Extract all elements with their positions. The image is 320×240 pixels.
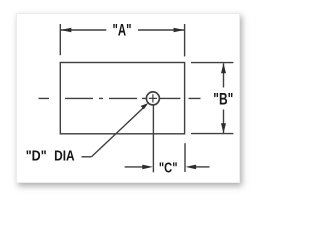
dim A right extension line bbox=[184, 24, 186, 56]
dim B dimension line bottom segment bbox=[223, 110, 225, 134]
leader line diagonal to hole bbox=[92, 105, 147, 157]
dim B top extension line bbox=[191, 62, 233, 64]
part outline rectangle bbox=[60, 63, 184, 134]
dim C left arrow tail bbox=[125, 166, 144, 168]
dim C left arrowhead bbox=[142, 165, 153, 170]
drawing card background bbox=[16, 13, 240, 183]
dim B dimension line top segment bbox=[223, 63, 225, 87]
dim B up arrowhead bbox=[221, 63, 226, 73]
dim C right arrow tail bbox=[194, 166, 210, 168]
leader line tail from D DIA label bbox=[82, 156, 92, 158]
svg-text:"D": "D" bbox=[26, 149, 47, 165]
dim A left extension line bbox=[59, 24, 61, 55]
dim B down arrowhead bbox=[221, 123, 226, 133]
svg-text:DIA: DIA bbox=[54, 149, 75, 165]
hole center mark bbox=[149, 94, 157, 102]
centerline (horizontal dash-dot) bbox=[39, 97, 201, 99]
dim A dimension line right segment bbox=[138, 29, 185, 31]
hole circle bbox=[146, 92, 159, 105]
leader arrowhead at hole bbox=[141, 103, 149, 109]
dim B bottom extension line bbox=[191, 133, 233, 135]
dim C right arrowhead bbox=[186, 165, 197, 170]
dim C right extension line bbox=[184, 143, 186, 172]
dim A dimension line left segment bbox=[60, 29, 106, 31]
svg-text:"A": "A" bbox=[113, 22, 132, 40]
dim C left extension line (hole centerline extended) bbox=[152, 105, 154, 172]
dim A right arrowhead bbox=[174, 28, 185, 33]
svg-text:"B": "B" bbox=[213, 90, 233, 108]
svg-text:"C": "C" bbox=[159, 161, 178, 177]
dim A left arrowhead bbox=[61, 28, 72, 33]
